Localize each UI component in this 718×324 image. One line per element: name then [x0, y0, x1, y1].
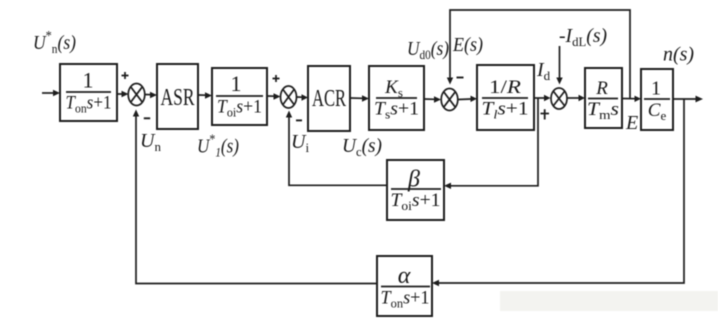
- svg-text:Tss+1: Tss+1: [374, 99, 419, 122]
- block R/(T_m s) mechanical: [585, 68, 622, 128]
- svg-text:Tois+1: Tois+1: [217, 97, 262, 120]
- svg-text:α: α: [398, 263, 411, 289]
- svg-text:ACR: ACR: [312, 86, 346, 112]
- svg-text:Id: Id: [536, 59, 551, 83]
- wire junction4 to R/Tms block: [567, 97, 579, 99]
- summing junction 2: [281, 86, 297, 108]
- wire 1/R block to summing junction 4: [534, 97, 545, 99]
- plus sign at summing junction 1: [122, 72, 129, 79]
- block ACR current regulator: [308, 66, 350, 131]
- svg-text:Ui: Ui: [291, 131, 309, 155]
- svg-text:E(s): E(s): [452, 34, 483, 56]
- svg-text:-IdL(s): -IdL(s): [559, 25, 607, 49]
- minus sign at summing junction 2: [296, 119, 302, 121]
- wire input arrow: [42, 92, 54, 94]
- svg-text:n(s): n(s): [663, 44, 694, 66]
- svg-text:1: 1: [651, 78, 661, 100]
- plus sign at summing junction 4: [541, 109, 550, 119]
- summing junction 3: [441, 89, 458, 111]
- wire block2 to summing junction 2: [267, 95, 275, 97]
- scan shading band bottom right: [500, 291, 718, 311]
- wire beta block output left and up into junction 2: [289, 117, 387, 185]
- wire output from 1/Ce: [673, 98, 696, 100]
- svg-text:Tons+1: Tons+1: [381, 288, 430, 311]
- block alpha/(T_on s+1) speed feedback: [377, 256, 432, 316]
- svg-text:1: 1: [231, 71, 242, 96]
- svg-text:E: E: [625, 112, 638, 134]
- block Ks/(T_s s+1) converter: [369, 66, 424, 130]
- svg-text:Ud0(s): Ud0(s): [407, 38, 449, 62]
- block ASR speed regulator: [157, 64, 198, 129]
- wire current feedback tap down to beta block: [450, 98, 538, 186]
- svg-text:Uc(s): Uc(s): [342, 135, 382, 159]
- minus sign at summing junction 3: [457, 77, 464, 79]
- wire Ks to summing junction 3 with U_d0 label: [424, 98, 435, 100]
- wire junction2 to ACR: [297, 96, 303, 98]
- block 1/Ce: [641, 69, 673, 130]
- wire junction1 to ASR: [145, 94, 152, 96]
- svg-text:Tls+1: Tls+1: [482, 99, 529, 122]
- svg-text:Tois+1: Tois+1: [391, 190, 441, 213]
- summing junction 1: [128, 84, 145, 106]
- wire ACR to Ks block: [350, 97, 363, 99]
- svg-text:ASR: ASR: [161, 85, 195, 111]
- block 1/(T_on s+1) input filter: [60, 64, 117, 121]
- svg-text:Un: Un: [140, 130, 161, 154]
- wire alpha block output left and up into junction 1: [136, 116, 377, 284]
- svg-text:Ks: Ks: [384, 77, 403, 100]
- block (1/R)/(T_l s+1) armature circuit: [477, 65, 534, 130]
- block 1/(T_oi s+1) current filter: [212, 68, 267, 125]
- wire load disturbance arrow into junction 4: [559, 46, 561, 78]
- svg-text:R: R: [595, 78, 608, 99]
- wire junction3 to 1/R block: [458, 98, 471, 101]
- minus sign at summing junction 1: [144, 117, 150, 119]
- wire R/Tms to 1/Ce with E label: [622, 98, 635, 100]
- wire EMF feedback from between R/Tms and 1/Ce up over to junction 3: [450, 10, 630, 99]
- summing junction 4: [551, 88, 567, 109]
- svg-text:U*1(s): U*1(s): [197, 133, 239, 160]
- svg-text:1/R: 1/R: [489, 77, 521, 98]
- block beta/(T_oi s+1) current feedback: [387, 160, 444, 220]
- wire ASR to block2: [198, 94, 206, 96]
- wire block1 to summing junction 1: [117, 93, 123, 95]
- svg-text:1: 1: [83, 68, 94, 93]
- plus sign at summing junction 2: [273, 75, 280, 82]
- svg-text:Tons+1: Tons+1: [66, 93, 112, 116]
- svg-text:U*n(s): U*n(s): [33, 29, 76, 56]
- svg-text:Ce: Ce: [648, 100, 667, 123]
- wire speed feedback tap down right side to alpha block: [438, 99, 684, 283]
- svg-text:Tms: Tms: [587, 99, 619, 122]
